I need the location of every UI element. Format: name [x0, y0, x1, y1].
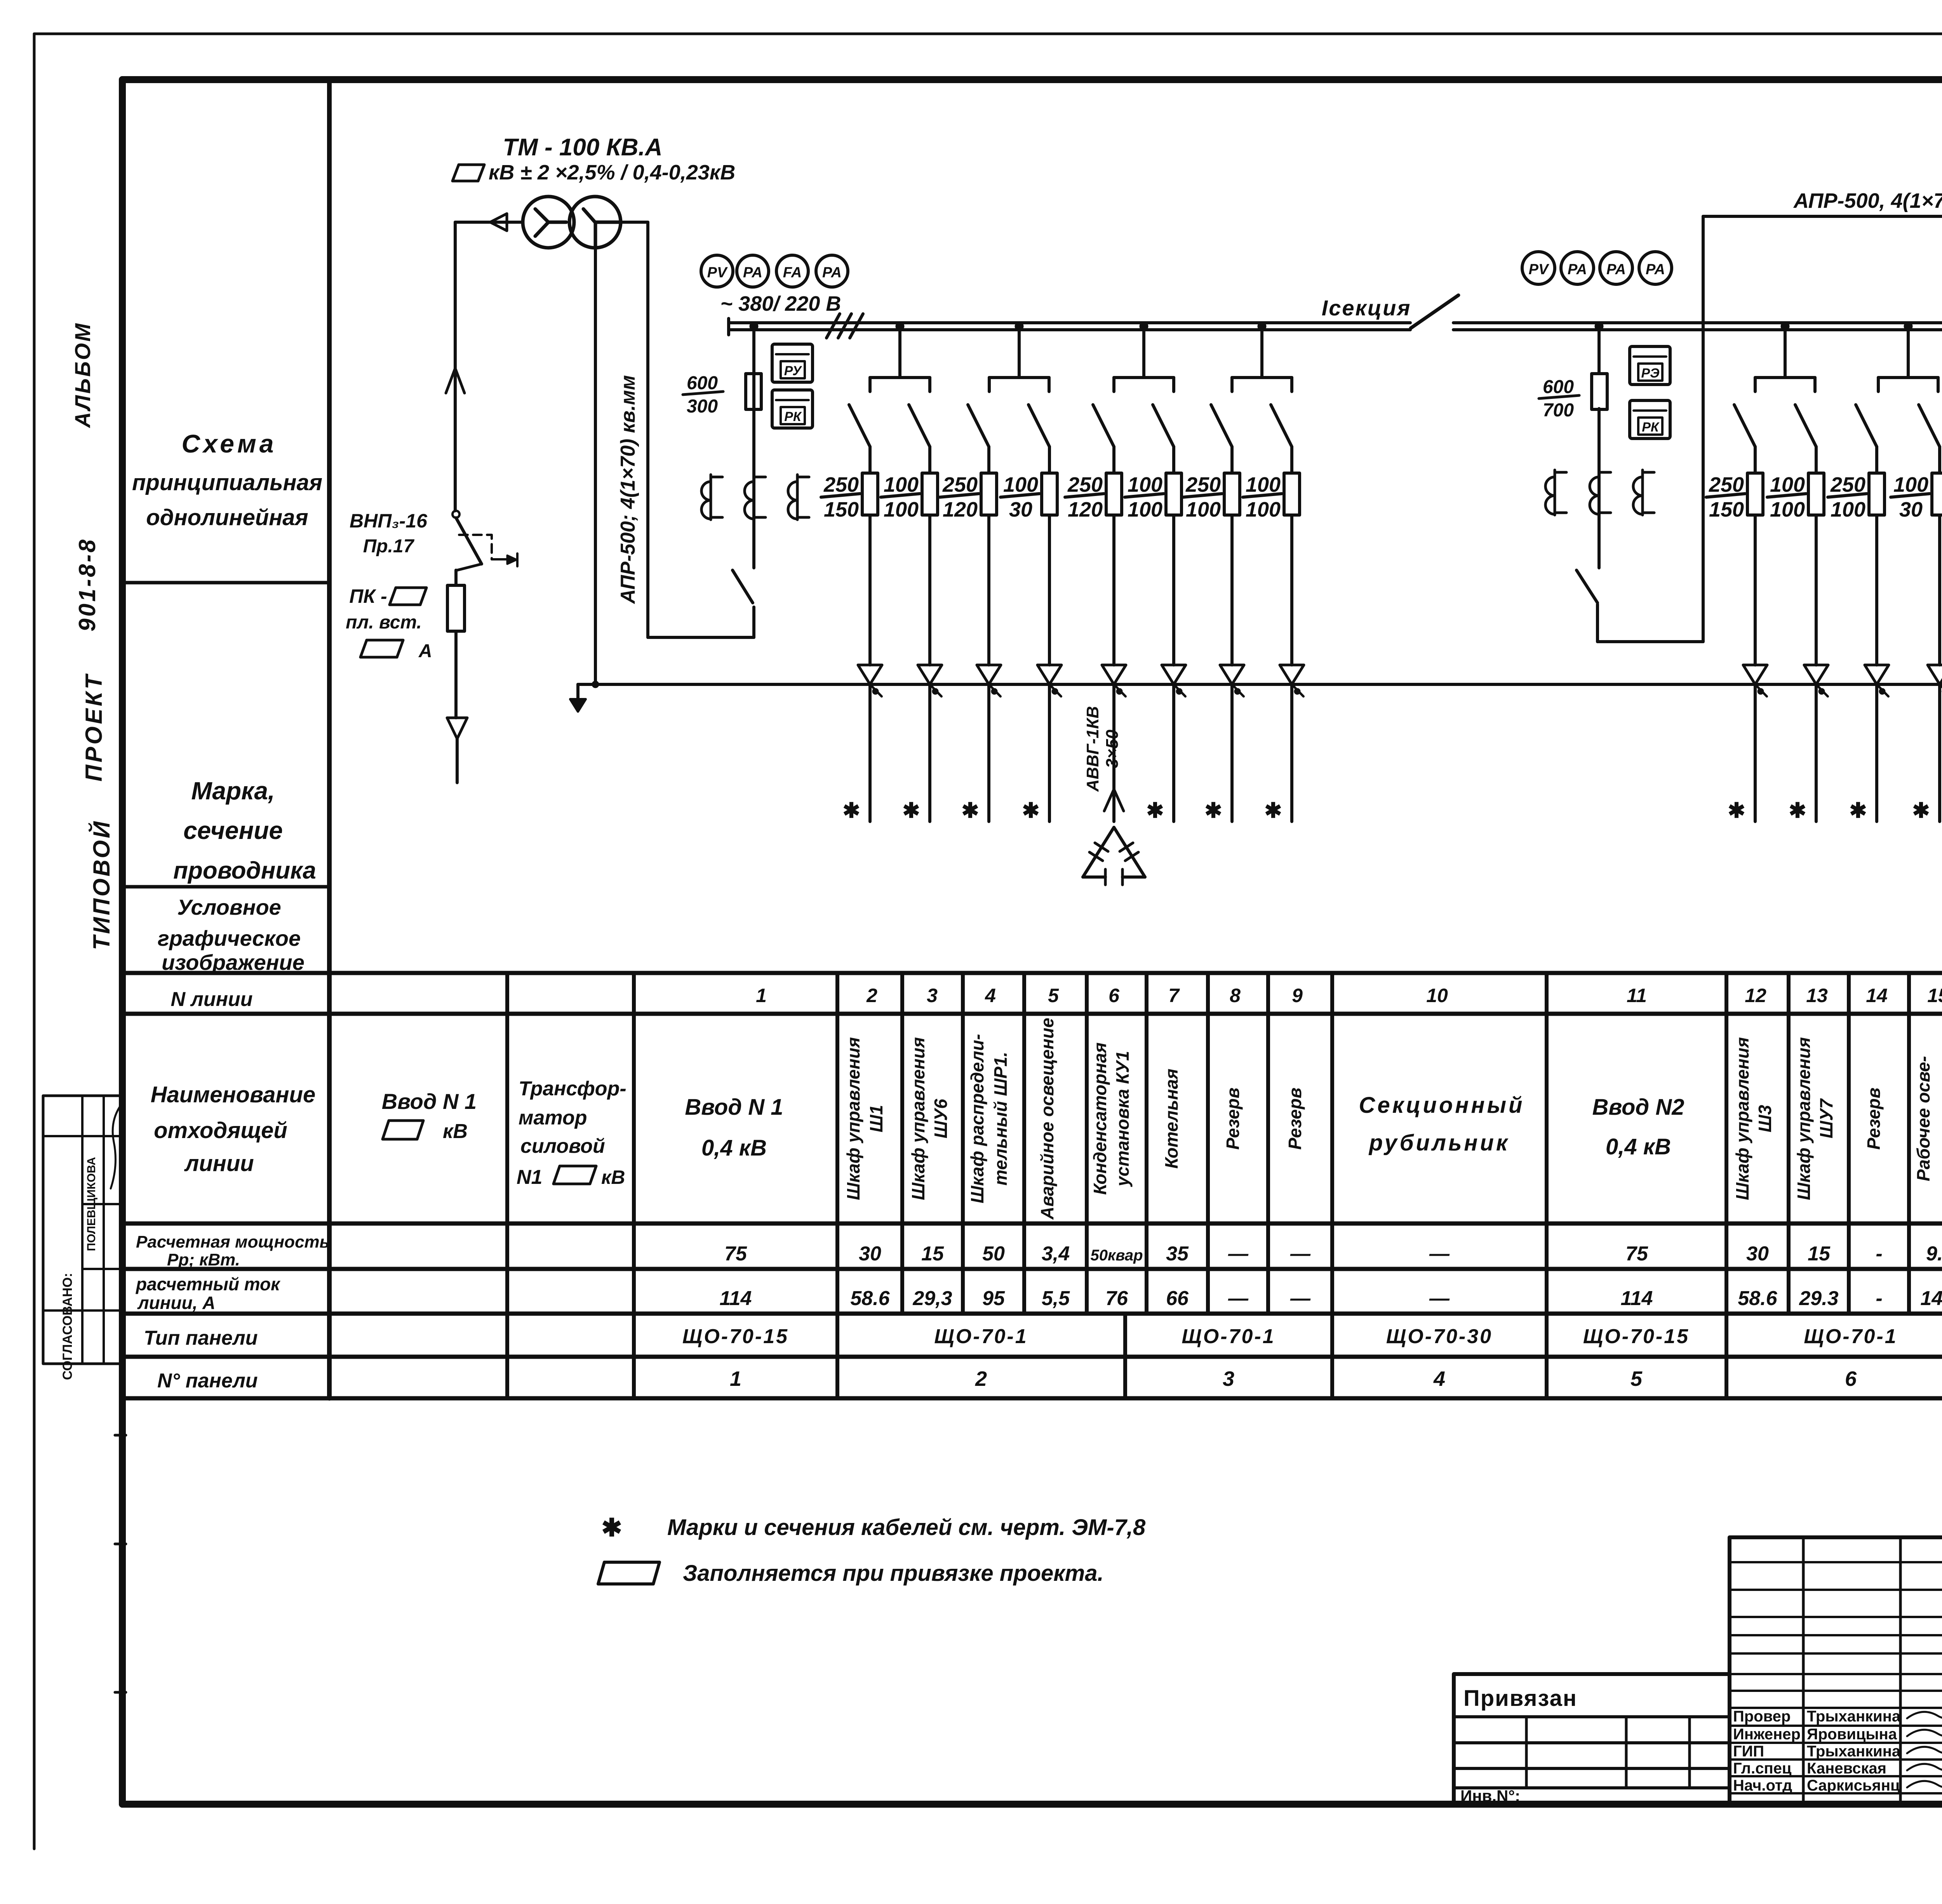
- svg-text:ЩО-70-1: ЩО-70-1: [1182, 1325, 1275, 1348]
- svg-text:75: 75: [724, 1243, 747, 1265]
- svg-text:✱: ✱: [601, 1514, 622, 1542]
- ground (left): [570, 684, 586, 712]
- svg-text:кВ ± 2 ×2,5% / 0,4-0,23кВ: кВ ± 2 ×2,5% / 0,4-0,23кВ: [489, 161, 735, 184]
- svg-text:PV: PV: [1529, 261, 1549, 278]
- fuse line 6: 250/120: [1065, 473, 1122, 521]
- svg-text:Пр.17: Пр.17: [363, 536, 415, 557]
- table grid: [122, 973, 1942, 1398]
- label column divider: [122, 80, 329, 1398]
- svg-text:Резерв: Резерв: [1223, 1088, 1243, 1150]
- wire line 9 outgoing: [1280, 515, 1304, 821]
- svg-text:✱: ✱: [1204, 799, 1222, 822]
- svg-text:13: 13: [1806, 985, 1828, 1006]
- title block: left part Привязан: [1454, 1674, 1730, 1805]
- instruments PV PA FA PA (section I): [701, 255, 848, 287]
- wire line 2 outgoing: [858, 515, 882, 821]
- fuse 600/300: [683, 373, 761, 417]
- header line numbers 1..19: [756, 985, 1942, 1006]
- row values: расчетный ток: [720, 1287, 1942, 1310]
- wire: T1 secondary loop АПР-500: [620, 222, 754, 637]
- svg-text:✱: ✱: [902, 799, 920, 822]
- svg-text:7: 7: [1168, 985, 1180, 1006]
- svg-text:Трансфор-: Трансфор-: [519, 1077, 626, 1100]
- wire line 13 outgoing: [1804, 515, 1828, 821]
- svg-text:2: 2: [866, 985, 877, 1006]
- svg-text:Гл.спец: Гл.спец: [1733, 1760, 1792, 1777]
- svg-text:4: 4: [1433, 1367, 1445, 1391]
- svg-text:PA: PA: [1568, 261, 1587, 278]
- svg-text:Ввод N 1: Ввод N 1: [382, 1089, 477, 1114]
- feeder group drop at busbar x=2317: [870, 330, 930, 392]
- svg-text:Наименование: Наименование: [151, 1082, 315, 1107]
- svg-text:ЩО-70-15: ЩО-70-15: [1583, 1325, 1690, 1348]
- svg-text:76: 76: [1105, 1287, 1128, 1310]
- svg-text:8: 8: [1230, 985, 1241, 1006]
- svg-text:—: —: [1290, 1243, 1311, 1265]
- svg-text:FA: FA: [783, 265, 802, 281]
- svg-text:10: 10: [1426, 985, 1448, 1006]
- fuse line 15: 100/30: [1891, 473, 1942, 521]
- svg-text:Трыханкина: Трыханкина: [1807, 1708, 1901, 1725]
- switch line 15: [1919, 405, 1940, 473]
- svg-text:—: —: [1429, 1287, 1450, 1310]
- svg-text:114: 114: [1621, 1287, 1653, 1310]
- note: Заполняется при привязке проекта: [598, 1561, 1104, 1586]
- svg-text:Ввод N2: Ввод N2: [1592, 1095, 1684, 1120]
- svg-text:300: 300: [687, 396, 718, 417]
- signature rows labels/names: [1733, 1708, 1942, 1794]
- svg-text:PA: PA: [1646, 261, 1665, 278]
- svg-text:1: 1: [730, 1367, 741, 1391]
- fuse 600/700: [1539, 374, 1607, 421]
- svg-text:1: 1: [756, 985, 767, 1006]
- svg-text:Расчетная мощность: Расчетная мощность: [136, 1232, 330, 1251]
- svg-text:Рр; кВт.: Рр; кВт.: [167, 1250, 240, 1269]
- knife switch Ввод N2: [1577, 570, 1597, 603]
- svg-text:✱: ✱: [1264, 799, 1282, 822]
- svg-text:ЩО-70-1: ЩО-70-1: [934, 1325, 1028, 1348]
- switch line 6: [1093, 405, 1114, 473]
- cell: Ввод N2 0,4 кВ: [1592, 1095, 1684, 1159]
- svg-text:66: 66: [1166, 1287, 1189, 1310]
- svg-text:Саркисьянц: Саркисьянц: [1807, 1777, 1900, 1794]
- switch line 14: [1856, 405, 1877, 473]
- relay boxes РУ РК (section I): [772, 344, 813, 428]
- svg-text:29.3: 29.3: [1799, 1287, 1838, 1310]
- svg-text:30: 30: [1009, 498, 1032, 521]
- fuse ПК (left): [447, 570, 465, 718]
- svg-text:120: 120: [943, 498, 978, 521]
- svg-text:✱: ✱: [1146, 799, 1164, 822]
- svg-text:Ш3: Ш3: [1755, 1105, 1775, 1132]
- switch line 9: [1271, 405, 1292, 473]
- svg-text:ВНП₃-16: ВНП₃-16: [350, 510, 428, 532]
- svg-text:50квар: 50квар: [1090, 1247, 1143, 1264]
- svg-text:Марки и сечения кабелей см: Марки и сечения кабелей см. черт. ЭМ-7,8: [667, 1515, 1146, 1540]
- svg-text:14: 14: [1866, 985, 1888, 1006]
- svg-text:Секционный: Секционный: [1359, 1093, 1525, 1118]
- svg-text:Котельная: Котельная: [1161, 1069, 1182, 1168]
- label: ПК- пл.вст. А (left): [346, 585, 432, 661]
- label: ВНП3-16 Пр.17 (left): [350, 510, 428, 557]
- row values: Тип панели: [682, 1325, 1942, 1348]
- svg-text:✱: ✱: [1022, 799, 1039, 822]
- svg-text:пл. вст.: пл. вст.: [346, 612, 422, 633]
- svg-text:Каневская: Каневская: [1807, 1760, 1886, 1777]
- wire line 7 outgoing: [1162, 515, 1186, 821]
- svg-text:—: —: [1228, 1243, 1249, 1265]
- svg-text:установка КУ1: установка КУ1: [1112, 1051, 1133, 1187]
- svg-text:3×50: 3×50: [1103, 729, 1122, 768]
- label: Условное графическое изображение: [158, 895, 305, 975]
- svg-text:Резерв: Резерв: [1864, 1088, 1884, 1150]
- svg-text:проводника: проводника: [173, 857, 316, 884]
- wire line 4 outgoing: [977, 515, 1001, 821]
- svg-text:ШУ7: ШУ7: [1816, 1098, 1836, 1138]
- cable head arrow down (left inlet): [447, 718, 467, 783]
- svg-text:6: 6: [1845, 1367, 1857, 1391]
- switch line 3: [909, 405, 930, 473]
- wire line 8 outgoing: [1220, 515, 1244, 821]
- svg-text:600: 600: [1543, 377, 1574, 397]
- svg-text:29,3: 29,3: [912, 1287, 952, 1310]
- svg-text:Ш1: Ш1: [866, 1105, 886, 1133]
- rotated feeder-name column headers: [843, 1018, 1942, 1220]
- svg-text:9.2: 9.2: [1926, 1243, 1942, 1265]
- svg-text:6: 6: [1108, 985, 1120, 1006]
- svg-text:А: А: [418, 641, 432, 661]
- svg-text:однолинейная: однолинейная: [146, 505, 308, 530]
- svg-text:рубильник: рубильник: [1368, 1130, 1510, 1156]
- cell: Ввод N1 _кВ: [382, 1089, 477, 1143]
- feeder group drop at busbar x=3249: [1232, 330, 1292, 392]
- svg-text:14.8: 14.8: [1920, 1287, 1942, 1310]
- svg-text:ПРОЕКТ: ПРОЕКТ: [81, 673, 107, 781]
- svg-text:50: 50: [982, 1243, 1005, 1265]
- svg-text:5: 5: [1048, 985, 1059, 1006]
- svg-text:Шкаф управления: Шкаф управления: [908, 1037, 928, 1200]
- svg-text:100: 100: [1128, 498, 1162, 521]
- svg-text:Шкаф управления: Шкаф управления: [843, 1037, 863, 1200]
- fuse line 13: 100/100: [1767, 473, 1824, 521]
- svg-text:~ 380/ 220 В: ~ 380/ 220 В: [720, 292, 841, 315]
- svg-text:ЩО-70-15: ЩО-70-15: [682, 1325, 789, 1348]
- svg-text:расчетный ток: расчетный ток: [135, 1274, 281, 1294]
- section tie switch (секционный рубильник): [1411, 295, 1458, 328]
- svg-text:—: —: [1429, 1243, 1450, 1265]
- svg-text:-: -: [1876, 1243, 1882, 1265]
- fuse line 2: 250/150: [821, 473, 878, 521]
- row label: расчетный ток линии, А: [135, 1274, 281, 1313]
- svg-text:АПР-500, 4(1×70) КВмм: АПР-500, 4(1×70) КВмм: [1793, 189, 1942, 212]
- wire: Ввод N2 from АПР-500 line: [1597, 216, 1942, 642]
- svg-text:линии: линии: [184, 1151, 254, 1176]
- cell: Трансформатор силовой N1 _кВ: [517, 1077, 626, 1189]
- wire: T1 neutral to ground bus: [594, 249, 597, 684]
- svg-text:Iсекция: Iсекция: [1322, 296, 1411, 320]
- svg-text:тельный ШР1.: тельный ШР1.: [990, 1052, 1011, 1185]
- svg-text:700: 700: [1543, 400, 1574, 421]
- svg-text:Аварийное освещение: Аварийное освещение: [1037, 1018, 1057, 1220]
- row label: Наименование отходящей линии: [151, 1082, 315, 1176]
- svg-text:PA: PA: [743, 265, 762, 281]
- svg-text:600: 600: [687, 373, 718, 393]
- title block: central signature table: [1730, 1537, 1942, 1804]
- svg-text:95: 95: [982, 1287, 1005, 1310]
- svg-text:5,5: 5,5: [1042, 1287, 1070, 1310]
- label: Схема принципиальная однолинейная: [132, 429, 322, 530]
- phase marks /// on busbar I: [827, 314, 863, 338]
- svg-text:РК: РК: [784, 409, 802, 424]
- feeder group drop at busbar x=2624: [989, 330, 1049, 392]
- svg-text:3: 3: [1223, 1367, 1234, 1391]
- svg-text:75: 75: [1625, 1243, 1648, 1265]
- svg-text:✱: ✱: [1849, 799, 1867, 822]
- label: Марка, сечение проводника: [173, 777, 316, 884]
- cell: Ввод N1 0,4 кВ: [685, 1095, 783, 1161]
- svg-text:100: 100: [884, 498, 919, 521]
- svg-text:линии, А: линии, А: [137, 1293, 215, 1313]
- row values: N панели: [730, 1367, 1942, 1391]
- svg-text:3,4: 3,4: [1042, 1243, 1070, 1265]
- svg-text:АЛЬБОМ: АЛЬБОМ: [70, 322, 95, 428]
- relay boxes РЭ РК (section II): [1630, 346, 1670, 439]
- svg-text:ЩО-70-30: ЩО-70-30: [1386, 1325, 1493, 1348]
- svg-text:Условное: Условное: [177, 895, 281, 919]
- svg-text:Конденсаторная: Конденсаторная: [1090, 1043, 1110, 1195]
- note: * Марки и сечения кабелей: [601, 1514, 1146, 1542]
- svg-text:Шкаф управления: Шкаф управления: [1794, 1037, 1814, 1200]
- svg-text:150: 150: [1709, 498, 1744, 521]
- svg-text:щение: щение: [1936, 1090, 1942, 1148]
- instruments PV PA PA PA (section II): [1522, 252, 1672, 284]
- svg-text:N линии: N линии: [171, 988, 252, 1011]
- svg-text:ШУ6: ШУ6: [931, 1099, 951, 1138]
- fuse line 9: 100/100: [1243, 473, 1300, 521]
- wire line 5 outgoing: [1037, 515, 1061, 821]
- svg-text:100: 100: [1770, 498, 1805, 521]
- row values: Рр кВт: [724, 1243, 1942, 1265]
- current transformers (inlet N2): [1545, 470, 1654, 515]
- svg-text:АВВГ-1КВ: АВВГ-1КВ: [1083, 706, 1102, 792]
- svg-text:ПК -: ПК -: [349, 585, 387, 607]
- fuse line 8: 250/100: [1183, 473, 1240, 521]
- svg-text:Трыханкина: Трыханкина: [1807, 1743, 1901, 1760]
- fuse line 3: 100/100: [881, 473, 938, 521]
- svg-text:—: —: [1290, 1287, 1311, 1310]
- svg-text:114: 114: [720, 1287, 752, 1310]
- svg-text:100: 100: [1186, 498, 1221, 521]
- svg-text:Резерв: Резерв: [1285, 1088, 1305, 1150]
- svg-text:58.6: 58.6: [1738, 1287, 1777, 1310]
- svg-text:120: 120: [1068, 498, 1103, 521]
- knife switch Ввод N1: [733, 329, 754, 603]
- svg-text:кВ: кВ: [601, 1166, 625, 1188]
- svg-text:ПОЛЕВЩИКОВА: ПОЛЕВЩИКОВА: [85, 1157, 98, 1251]
- switch line 8: [1211, 405, 1232, 473]
- svg-text:150: 150: [824, 498, 859, 521]
- svg-text:Инженер: Инженер: [1733, 1726, 1801, 1743]
- wire line 15 outgoing: [1928, 515, 1942, 821]
- svg-text:Шкаф управления: Шкаф управления: [1732, 1037, 1752, 1200]
- svg-text:✱: ✱: [961, 799, 979, 822]
- svg-text:Схема: Схема: [182, 429, 277, 458]
- svg-text:9: 9: [1292, 985, 1303, 1006]
- svg-text:ТИПОВОЙ: ТИПОВОЙ: [88, 820, 115, 950]
- fuse line 12: 250/150: [1706, 473, 1763, 521]
- svg-text:3: 3: [927, 985, 938, 1006]
- wire line 6 outgoing: [1102, 515, 1126, 821]
- svg-text:РЭ: РЭ: [1641, 366, 1659, 381]
- wire line 12 outgoing: [1743, 515, 1767, 821]
- svg-text:отходящей: отходящей: [154, 1118, 287, 1143]
- svg-text:5: 5: [1631, 1367, 1643, 1391]
- svg-text:Провер: Провер: [1733, 1708, 1791, 1725]
- svg-text:✱: ✱: [1728, 799, 1745, 822]
- fuse line 7: 100/100: [1125, 473, 1182, 521]
- fuse line 5: 100/30: [1001, 473, 1057, 521]
- current transformers (inlet N1): [701, 475, 809, 520]
- wire line 3 outgoing: [918, 515, 942, 821]
- svg-text:35: 35: [1166, 1243, 1189, 1265]
- svg-text:30: 30: [1899, 498, 1923, 521]
- fuse line 4: 250/120: [940, 473, 997, 521]
- feeder group drop at busbar x=4913: [1878, 330, 1938, 392]
- svg-text:PA: PA: [822, 265, 842, 281]
- svg-text:100: 100: [1246, 498, 1281, 521]
- svg-text:матор: матор: [519, 1107, 587, 1129]
- svg-text:15: 15: [1808, 1243, 1831, 1265]
- switch line 2: [849, 405, 870, 473]
- svg-text:АПР-500; 4(1×70) кв.мм: АПР-500; 4(1×70) кв.мм: [617, 375, 639, 604]
- svg-text:кВ: кВ: [443, 1120, 468, 1143]
- feeder group drop at busbar x=2945: [1114, 330, 1174, 392]
- svg-text:Нач.отд: Нач.отд: [1733, 1777, 1792, 1794]
- wire: T1 primary to VNP chain: [446, 214, 523, 511]
- svg-text:Тип панели: Тип панели: [144, 1327, 258, 1349]
- svg-text:58.6: 58.6: [850, 1287, 890, 1310]
- svg-text:—: —: [1228, 1287, 1249, 1310]
- svg-text:30: 30: [859, 1243, 881, 1265]
- svg-text:✱: ✱: [842, 799, 860, 822]
- busbar section II: [1453, 317, 1942, 336]
- busbar section I ~380/220V: [729, 318, 1410, 335]
- fuse line 14: 250/100: [1828, 473, 1885, 521]
- svg-text:901-8-8: 901-8-8: [74, 538, 100, 632]
- cell: Секционный рубильник: [1359, 1093, 1525, 1156]
- svg-text:Марка,: Марка,: [191, 777, 275, 805]
- svg-text:Шкаф распредели-: Шкаф распредели-: [967, 1034, 987, 1203]
- svg-text:СОГЛАСОВАНО:: СОГЛАСОВАНО:: [60, 1273, 75, 1380]
- svg-text:принципиальная: принципиальная: [132, 470, 322, 495]
- svg-text:Заполняется при привязке пр: Заполняется при привязке проекта.: [683, 1561, 1104, 1586]
- svg-text:ТМ - 100 КВ.А: ТМ - 100 КВ.А: [503, 134, 663, 161]
- svg-text:-: -: [1876, 1287, 1882, 1310]
- svg-text:Инв.N°:: Инв.N°:: [1460, 1787, 1520, 1805]
- switch line 12: [1734, 405, 1755, 473]
- feeder group drop at busbar x=4596: [1755, 330, 1815, 392]
- label T1 ratio: кВ ± 2x2,5% /0,4-0,23кВ: [452, 161, 735, 184]
- busbar junction dots: [750, 322, 1942, 331]
- svg-text:4: 4: [985, 985, 996, 1006]
- svg-text:15: 15: [1927, 985, 1942, 1006]
- svg-text:PA: PA: [1606, 261, 1626, 278]
- svg-text:✱: ✱: [1789, 799, 1806, 822]
- svg-text:N1: N1: [517, 1166, 542, 1189]
- svg-text:100: 100: [1831, 498, 1865, 521]
- switch line 7: [1153, 405, 1174, 473]
- svg-text:силовой: силовой: [520, 1135, 605, 1157]
- svg-text:сечение: сечение: [183, 816, 283, 844]
- svg-text:ГИП: ГИП: [1733, 1743, 1764, 1760]
- svg-text:N° панели: N° панели: [157, 1370, 258, 1392]
- svg-text:✱: ✱: [1912, 799, 1930, 822]
- capacitor unit КУ on line 6: [1083, 706, 1145, 885]
- svg-text:12: 12: [1745, 985, 1766, 1006]
- svg-text:РУ: РУ: [784, 364, 802, 378]
- svg-text:Привязан: Привязан: [1463, 1686, 1577, 1711]
- svg-text:Рабочее осве-: Рабочее осве-: [1913, 1056, 1933, 1182]
- approval stamp box СОГЛАСОВАНО: [43, 1096, 124, 1380]
- switch line 5: [1028, 405, 1049, 473]
- svg-text:РК: РК: [1642, 420, 1660, 435]
- disconnector ВНП3-16 (left): [452, 511, 517, 570]
- svg-text:Яровицына: Яровицына: [1807, 1726, 1897, 1743]
- transformer T1 ТМ-100: [523, 197, 621, 249]
- svg-text:2: 2: [975, 1367, 987, 1391]
- svg-text:PV: PV: [707, 265, 728, 281]
- svg-text:15: 15: [921, 1243, 944, 1265]
- svg-text:ЩО-70-1: ЩО-70-1: [1804, 1325, 1897, 1348]
- wire line 14 outgoing: [1865, 515, 1889, 821]
- svg-text:30: 30: [1746, 1243, 1769, 1265]
- switch line 4: [968, 405, 989, 473]
- svg-text:графическое: графическое: [158, 926, 301, 950]
- switch line 13: [1795, 405, 1816, 473]
- svg-text:11: 11: [1627, 985, 1647, 1006]
- ground bus PEN: [592, 681, 599, 688]
- svg-text:0,4 кВ: 0,4 кВ: [701, 1135, 767, 1161]
- svg-text:Ввод N 1: Ввод N 1: [685, 1095, 783, 1120]
- sidebar text: ТИПОВОЙ ПРОЕКТ 901-8-8 (rotated): [74, 538, 115, 950]
- svg-text:0,4 кВ: 0,4 кВ: [1606, 1134, 1671, 1159]
- row label: Расчетная мощность Рр, кВт: [136, 1232, 330, 1269]
